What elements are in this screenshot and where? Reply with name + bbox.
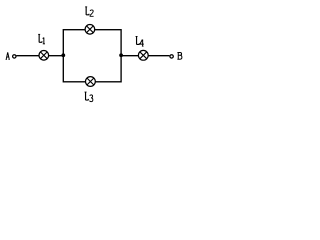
lamp L1 [39, 51, 49, 61]
junction node1 [61, 53, 65, 57]
wire L1 to node1 [49, 55, 64, 57]
lamp L2 [85, 25, 95, 35]
lamp L1 label [38, 34, 45, 44]
lamp L4 [138, 50, 148, 60]
wire L4 to B [148, 55, 169, 57]
terminal B [170, 55, 173, 58]
lamp L3 [86, 77, 96, 87]
parallel loop wires [63, 30, 121, 82]
wire A to L1 [16, 55, 39, 57]
junction node2 [119, 53, 123, 57]
node A label [6, 52, 10, 59]
node B label [177, 52, 182, 59]
lamp L3 label [85, 92, 93, 102]
lamp L2 label [85, 7, 93, 16]
terminal A [13, 55, 16, 58]
lamp L4 label [136, 36, 144, 46]
wire node2 to L4 [121, 55, 139, 57]
